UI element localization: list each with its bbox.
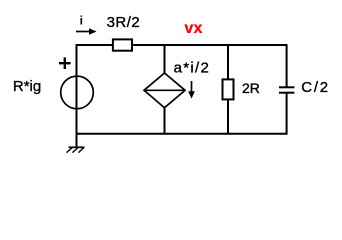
svg-text:i: i — [80, 13, 83, 27]
resistor 3R/2 — [113, 39, 132, 50]
node vx — [184, 20, 202, 37]
value label C/2 — [301, 79, 330, 96]
ground — [67, 147, 85, 152]
dependent source (diamond) — [144, 73, 185, 108]
wire top rail — [77, 44, 288, 46]
capacitor C/2 — [279, 87, 294, 92]
wire dependent-source bottom — [164, 107, 166, 134]
current arrow i — [76, 28, 97, 35]
resistor 2R — [223, 79, 234, 99]
value label 2R — [242, 80, 260, 96]
value label 3R/2 — [107, 14, 141, 31]
svg-text:3R/2: 3R/2 — [107, 14, 141, 31]
value label R*ig — [13, 78, 41, 95]
voltage source V1 — [61, 76, 94, 109]
wire capacitor bottom — [286, 93, 288, 134]
wire capacitor top — [286, 45, 288, 87]
wire 2R branch — [227, 45, 229, 134]
svg-text:C/2: C/2 — [301, 79, 330, 96]
current arrow a*i/2 — [188, 81, 195, 99]
svg-text:2R: 2R — [242, 80, 260, 96]
svg-text:a*i/2: a*i/2 — [174, 59, 211, 76]
wire bottom rail — [77, 133, 288, 135]
svg-text:R*ig: R*ig — [13, 78, 41, 95]
polarity + — [59, 57, 71, 69]
svg-text:vx: vx — [184, 20, 202, 37]
wire dependent-source top — [164, 45, 166, 74]
value label a*i/2 — [174, 59, 211, 76]
wire left vertical — [76, 44, 78, 148]
label i (current) — [80, 13, 83, 27]
